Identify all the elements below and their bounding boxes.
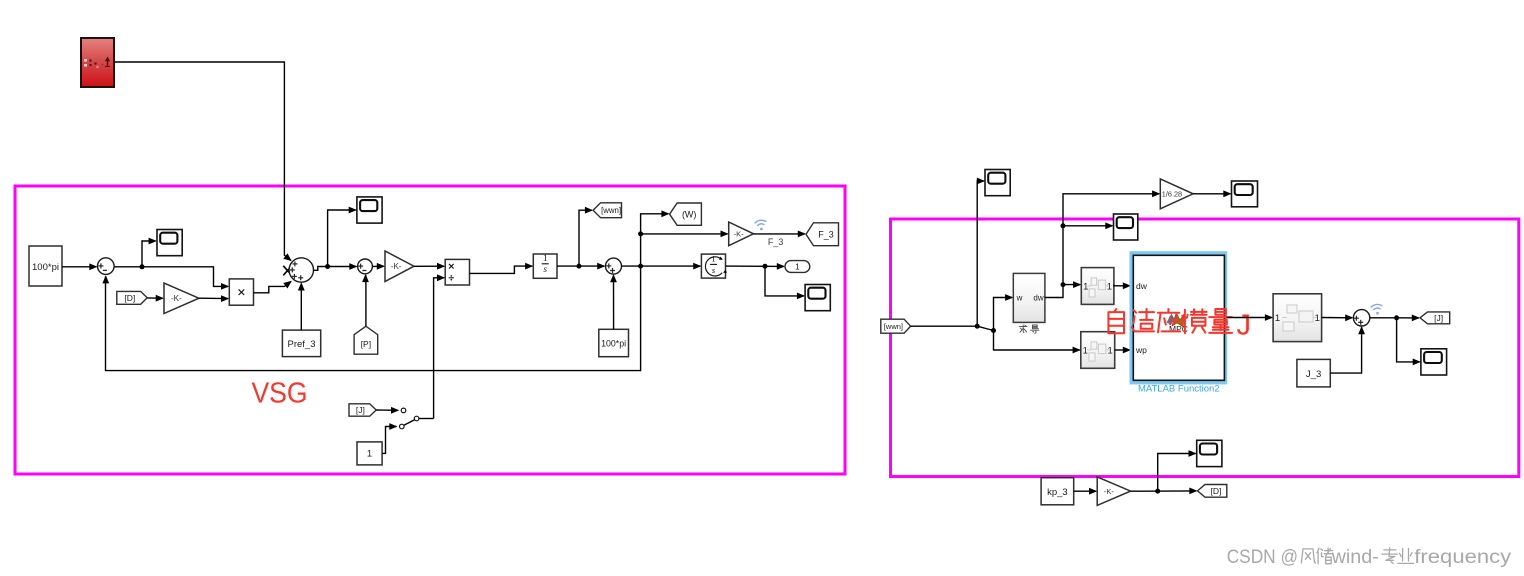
wire [wwn] with junctions: [911, 324, 996, 333]
wire junction to scope Sc3: [765, 266, 805, 299]
svg-text:[D]: [D]: [124, 293, 135, 303]
svg-text:1: 1: [1083, 345, 1088, 356]
wire junction to qiudao w input: [994, 294, 1014, 330]
sum R (++): [1353, 310, 1369, 326]
wire I2 to outport with junction: [726, 263, 786, 270]
scope B: [1197, 440, 1222, 466]
MATLAB Function2 block MPC: [1130, 252, 1227, 395]
wire junction to scope R4: [1397, 318, 1421, 366]
svg-text:[J]: [J]: [1434, 313, 1443, 323]
svg-text:wind-: wind-: [1331, 546, 1379, 568]
svg-text:w: w: [1016, 294, 1023, 303]
scope R1: [985, 170, 1010, 196]
svg-text:[J]: [J]: [356, 405, 365, 415]
sum S1 (+-): [98, 258, 115, 275]
scope R3: [1232, 181, 1258, 207]
goto tag [wwn]: [593, 203, 621, 218]
svg-text:kp_3: kp_3: [1047, 487, 1068, 498]
wire swing sum output with junction: [314, 263, 358, 270]
wire product to swing sum: [254, 281, 292, 293]
scope Sc2: [357, 197, 382, 223]
svg-text:1: 1: [543, 253, 548, 263]
wire junction to scope R1: [977, 178, 985, 327]
constant J_3: [1297, 359, 1330, 387]
subsystem boundary adaptive-inertia (magenta box): [891, 219, 1519, 477]
filter subsystem F1 (dw path): [1081, 268, 1114, 305]
from tag [D]: [117, 291, 147, 304]
label adaptive inertia J (red): [1108, 309, 1251, 342]
wire constant 1 to switch: [382, 423, 397, 453]
wifi logging badge on J wire: [1371, 304, 1383, 316]
svg-text:VSG: VSG: [252, 378, 308, 410]
svg-text:MATLAB Function2: MATLAB Function2: [1138, 384, 1220, 395]
goto tag [D] (right): [1198, 485, 1227, 498]
svg-text:1/6.28: 1/6.28: [1162, 190, 1182, 199]
svg-text:(W): (W): [682, 209, 697, 219]
scope R4: [1421, 349, 1447, 375]
wire divide to integrator I1: [470, 263, 534, 274]
sum S3 (+-): [358, 259, 373, 274]
watermark CSDN: [1227, 546, 1512, 568]
wire MATLAB fn to F3: [1227, 314, 1273, 321]
wire [D] to gain G1: [147, 295, 164, 302]
gain G4 1/6.28: [1160, 179, 1193, 209]
limited integrator I2 (wrapped 1/s): [701, 254, 727, 279]
svg-text:-K-: -K-: [391, 262, 402, 271]
constant 1: [357, 442, 382, 465]
svg-text:-K-: -K-: [734, 230, 745, 239]
svg-text:100*pi: 100*pi: [601, 339, 626, 349]
wire dw output with junction: [1045, 281, 1081, 297]
wire junction to goto [wwn]: [579, 207, 593, 266]
gain G5 -K-: [1097, 477, 1130, 506]
filter subsystem F2 (wp path): [1081, 332, 1115, 369]
wire switch output: [419, 418, 434, 420]
svg-text:J: J: [1237, 310, 1252, 342]
wire F1 to MATLAB function dw: [1114, 282, 1131, 289]
from tag [J]: [349, 404, 376, 416]
wire junction up to scope R2: [1061, 222, 1114, 284]
gain G2 -K-: [385, 251, 414, 282]
wire G3 to goto F_3 with label: [754, 231, 807, 248]
svg-text:Pref_3: Pref_3: [288, 339, 316, 350]
svg-text:F_3: F_3: [818, 230, 834, 240]
svg-text:dw: dw: [1136, 281, 1148, 291]
svg-text:1: 1: [1107, 281, 1112, 292]
divide block x-:-: [445, 259, 469, 285]
svg-text:J_3: J_3: [1306, 369, 1321, 380]
svg-text:-K-: -K-: [1104, 487, 1115, 496]
wire [J] to switch: [376, 407, 399, 414]
svg-text:[D]: [D]: [1210, 486, 1221, 496]
sum S4 (++): [606, 258, 622, 274]
from tag [P]: [354, 326, 378, 354]
wire red block to swing sum: [114, 62, 292, 261]
wire S3 to gain G2: [372, 263, 385, 270]
svg-text:1: 1: [795, 262, 800, 272]
wire junction to gain G3: [641, 231, 729, 238]
constant kp_3: [1041, 478, 1074, 505]
wire I1 output with junction: [557, 263, 605, 270]
integrator I1 1/s: [533, 253, 557, 278]
wire 100*pi to sum S4: [610, 274, 617, 329]
outport 1: [785, 261, 810, 273]
wire Pref_3 to swing sum: [298, 282, 305, 330]
constant 100*pi (Cst1): [29, 246, 62, 286]
svg-text:s: s: [543, 264, 547, 274]
svg-text:1: 1: [1315, 313, 1320, 324]
wire S1 output with junction: [114, 264, 229, 290]
wire junction to scope B: [1158, 450, 1197, 491]
svg-text:1: 1: [1108, 345, 1113, 356]
svg-text:[P]: [P]: [361, 339, 371, 349]
svg-text:1: 1: [367, 449, 372, 460]
wire junction to scope Sc1: [142, 238, 157, 267]
product block x: [229, 279, 253, 305]
feedback wire to sum S1: [102, 266, 640, 371]
wifi logging badge on F_3 wire: [755, 220, 767, 232]
constant Pref_3: [282, 330, 320, 357]
scope Sc1: [157, 230, 182, 256]
scope Sc3: [805, 285, 830, 311]
gain G1 -K- (damping): [164, 283, 199, 314]
wire S4 output to limited integrator with junction: [622, 263, 702, 270]
svg-text:[wwn]: [wwn]: [601, 206, 621, 215]
svg-text:CSDN @: CSDN @: [1227, 546, 1298, 568]
sum S2 swing (large, 4 inputs +): [289, 258, 313, 282]
wire 100*pi to sum S1: [62, 263, 98, 270]
svg-text:dw: dw: [1033, 294, 1043, 303]
svg-text:-K-: -K-: [171, 294, 182, 303]
from tag [wwn] (right): [881, 319, 911, 333]
wire F2 to MATLAB function wp: [1115, 347, 1131, 354]
wire switch to divide second input: [434, 274, 446, 418]
scope R2: [1114, 214, 1138, 240]
wire G4 to scope R3: [1193, 190, 1231, 197]
subsystem boundary VSG (magenta box): [15, 186, 845, 474]
wire G2 to divide: [414, 263, 445, 270]
wire F3 to sum R: [1322, 314, 1354, 321]
wire J_3 to sum R: [1330, 326, 1365, 373]
wire G5 to goto [D] with junction: [1131, 488, 1198, 495]
wire junction up to gain 1/6.28: [1063, 190, 1160, 225]
svg-text:100*pi: 100*pi: [32, 262, 59, 273]
goto tag (W): [670, 203, 702, 225]
gain G3 -K-: [729, 222, 754, 246]
goto tag F_3: [806, 223, 839, 246]
wire G1 to product: [199, 295, 229, 302]
source block (red masked block): [81, 38, 114, 87]
constant 100*pi (Cst2): [599, 329, 629, 356]
svg-text:1: 1: [1083, 281, 1088, 292]
svg-text:frequency: frequency: [1414, 546, 1511, 568]
svg-text:1: 1: [1275, 313, 1280, 324]
wire sumR output with junction: [1370, 315, 1420, 322]
svg-text:wp: wp: [1135, 345, 1147, 355]
manual switch Sw1: [400, 408, 419, 429]
svg-text:1: 1: [711, 254, 715, 264]
subsystem qiudao (derivative): [1013, 273, 1045, 333]
output subsystem F3: [1273, 294, 1322, 342]
svg-text:[wwn]: [wwn]: [884, 322, 903, 331]
wire junction up to goto (W) and gain G3: [638, 210, 670, 266]
wire kp_3 to gain G5: [1074, 488, 1098, 495]
crossing mark at swing sum: [283, 266, 291, 276]
wire junction to scope Sc2: [328, 207, 357, 267]
svg-text:F_3: F_3: [768, 237, 784, 247]
wire junction to wp filter: [994, 331, 1081, 354]
goto tag [J]: [1420, 312, 1450, 324]
wire [P] to sum S3: [362, 274, 369, 326]
label VSG: [252, 378, 308, 410]
